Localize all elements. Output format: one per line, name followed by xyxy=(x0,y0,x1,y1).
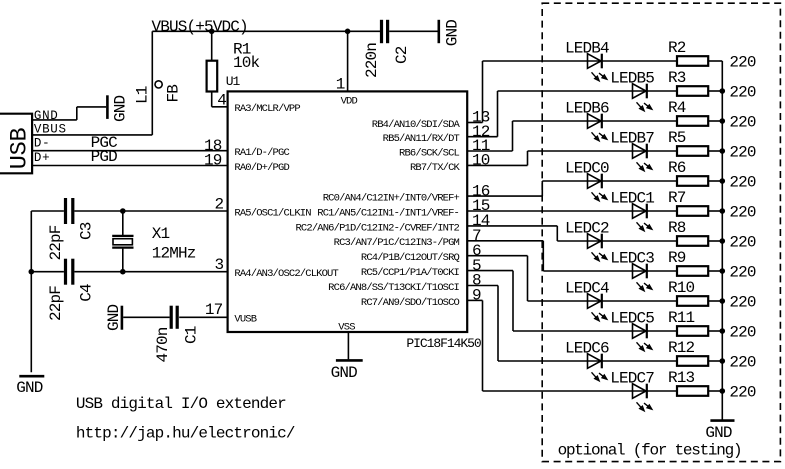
svg-text:22pF: 22pF xyxy=(47,286,65,321)
svg-text:RC4/P1B/C12OUT/SRQ: RC4/P1B/C12OUT/SRQ xyxy=(361,252,460,264)
svg-text:optional (for testing): optional (for testing) xyxy=(558,441,742,459)
svg-text:LEDC1: LEDC1 xyxy=(610,189,654,207)
svg-text:GND: GND xyxy=(34,109,59,123)
svg-text:D+: D+ xyxy=(34,151,50,165)
svg-text:220: 220 xyxy=(729,323,756,341)
svg-text:R3: R3 xyxy=(668,69,686,87)
svg-text:220: 220 xyxy=(729,353,756,371)
svg-text:RB5/AN11/RX/DT: RB5/AN11/RX/DT xyxy=(383,133,460,145)
svg-text:220n: 220n xyxy=(363,43,381,78)
svg-text:RC3/AN7/P1C/C12IN3-/PGM: RC3/AN7/P1C/C12IN3-/PGM xyxy=(334,237,460,249)
svg-text:220: 220 xyxy=(729,383,756,401)
svg-text:PIC18F14K50: PIC18F14K50 xyxy=(406,336,481,351)
svg-text:C1: C1 xyxy=(183,326,201,344)
svg-text:VDD: VDD xyxy=(341,95,358,107)
svg-text:R5: R5 xyxy=(668,129,686,147)
svg-text:RC1/AN5/C12IN1-/INT1/VREF-: RC1/AN5/C12IN1-/INT1/VREF- xyxy=(317,207,459,219)
svg-text:LEDB7: LEDB7 xyxy=(610,129,654,147)
svg-text:10k: 10k xyxy=(233,54,260,72)
svg-text:L1: L1 xyxy=(133,86,151,104)
svg-text:LEDC6: LEDC6 xyxy=(565,339,609,357)
svg-text:R11: R11 xyxy=(668,309,695,327)
svg-text:GND: GND xyxy=(112,95,130,122)
svg-text:USB digital I/O extender: USB digital I/O extender xyxy=(76,395,286,413)
svg-text:R12: R12 xyxy=(668,339,695,357)
svg-text:220: 220 xyxy=(729,263,756,281)
svg-text:RC7/AN9/SDO/T1OSCO: RC7/AN9/SDO/T1OSCO xyxy=(361,297,460,309)
svg-text:RB7/TX/CK: RB7/TX/CK xyxy=(410,162,461,174)
svg-text:R8: R8 xyxy=(668,219,686,237)
svg-text:R7: R7 xyxy=(668,189,686,207)
svg-text:R4: R4 xyxy=(668,99,686,117)
svg-text:RC0/AN4/C12IN+/INT0/VREF+: RC0/AN4/C12IN+/INT0/VREF+ xyxy=(323,193,460,205)
svg-text:12MHz: 12MHz xyxy=(152,245,196,263)
svg-text:220: 220 xyxy=(729,83,756,101)
svg-text:R2: R2 xyxy=(668,39,686,57)
svg-text:C4: C4 xyxy=(77,284,95,302)
svg-text:19: 19 xyxy=(204,151,222,169)
svg-text:GND: GND xyxy=(16,379,43,397)
svg-text:R6: R6 xyxy=(668,159,686,177)
svg-text:RC2/AN6/P1D/C12IN2-/CVREF/INT2: RC2/AN6/P1D/C12IN2-/CVREF/INT2 xyxy=(295,222,459,234)
svg-text:220: 220 xyxy=(729,143,756,161)
svg-text:220: 220 xyxy=(729,113,756,131)
svg-text:LEDC7: LEDC7 xyxy=(610,369,654,387)
svg-text:RB6/SCK/SCL: RB6/SCK/SCL xyxy=(399,147,460,159)
svg-text:GND: GND xyxy=(331,364,358,382)
svg-text:LEDC2: LEDC2 xyxy=(565,219,609,237)
svg-text:R13: R13 xyxy=(668,369,695,387)
svg-text:R9: R9 xyxy=(668,249,686,267)
svg-text:VBUS(+5VDC): VBUS(+5VDC) xyxy=(152,18,248,36)
svg-text:U1: U1 xyxy=(226,74,241,89)
svg-text:220: 220 xyxy=(729,293,756,311)
svg-text:http://jap.hu/electronic/: http://jap.hu/electronic/ xyxy=(76,424,295,442)
svg-text:1: 1 xyxy=(336,75,345,93)
svg-text:LEDB6: LEDB6 xyxy=(565,99,609,117)
svg-text:RA4/AN3/OSC2/CLKOUT: RA4/AN3/OSC2/CLKOUT xyxy=(234,268,338,280)
svg-text:RC6/AN8/SS/T13CKI/T1OSCI: RC6/AN8/SS/T13CKI/T1OSCI xyxy=(328,282,459,294)
svg-text:RA0/D+/PGD: RA0/D+/PGD xyxy=(234,162,289,174)
svg-text:R10: R10 xyxy=(668,279,695,297)
svg-text:22pF: 22pF xyxy=(47,225,65,260)
svg-text:GND: GND xyxy=(105,304,123,331)
svg-text:LEDC3: LEDC3 xyxy=(610,249,654,267)
svg-text:LEDB4: LEDB4 xyxy=(565,39,609,57)
svg-text:17: 17 xyxy=(205,301,223,319)
svg-text:4: 4 xyxy=(217,92,226,110)
svg-text:RA5/OSC1/CLKIN: RA5/OSC1/CLKIN xyxy=(234,207,311,219)
svg-text:220: 220 xyxy=(729,53,756,71)
svg-text:9: 9 xyxy=(472,287,481,305)
svg-text:LEDC0: LEDC0 xyxy=(565,159,609,177)
svg-text:LEDC4: LEDC4 xyxy=(565,279,609,297)
svg-text:D-: D- xyxy=(34,137,50,151)
svg-text:RA3/MCLR/VPP: RA3/MCLR/VPP xyxy=(234,103,300,115)
svg-text:470n: 470n xyxy=(154,327,172,362)
svg-text:RB4/AN10/SDI/SDA: RB4/AN10/SDI/SDA xyxy=(372,119,461,131)
svg-text:C3: C3 xyxy=(77,222,95,240)
svg-text:LEDB5: LEDB5 xyxy=(610,69,654,87)
svg-text:USB: USB xyxy=(7,127,34,169)
svg-text:220: 220 xyxy=(729,173,756,191)
svg-text:GND: GND xyxy=(443,20,461,47)
svg-text:RA1/D-/PGC: RA1/D-/PGC xyxy=(234,147,289,159)
svg-text:PGD: PGD xyxy=(91,148,118,166)
svg-text:10: 10 xyxy=(472,152,490,170)
svg-text:2: 2 xyxy=(215,195,224,213)
svg-text:X1: X1 xyxy=(152,225,170,243)
svg-text:C2: C2 xyxy=(393,46,411,64)
svg-text:LEDC5: LEDC5 xyxy=(610,309,654,327)
svg-text:RC5/CCP1/P1A/T0CKI: RC5/CCP1/P1A/T0CKI xyxy=(361,267,460,279)
svg-text:VUSB: VUSB xyxy=(234,314,256,326)
svg-text:VSS: VSS xyxy=(338,321,355,333)
svg-text:GND: GND xyxy=(705,424,732,442)
svg-text:220: 220 xyxy=(729,203,756,221)
svg-text:3: 3 xyxy=(215,256,224,274)
svg-text:FB: FB xyxy=(164,85,182,103)
svg-text:220: 220 xyxy=(729,233,756,251)
